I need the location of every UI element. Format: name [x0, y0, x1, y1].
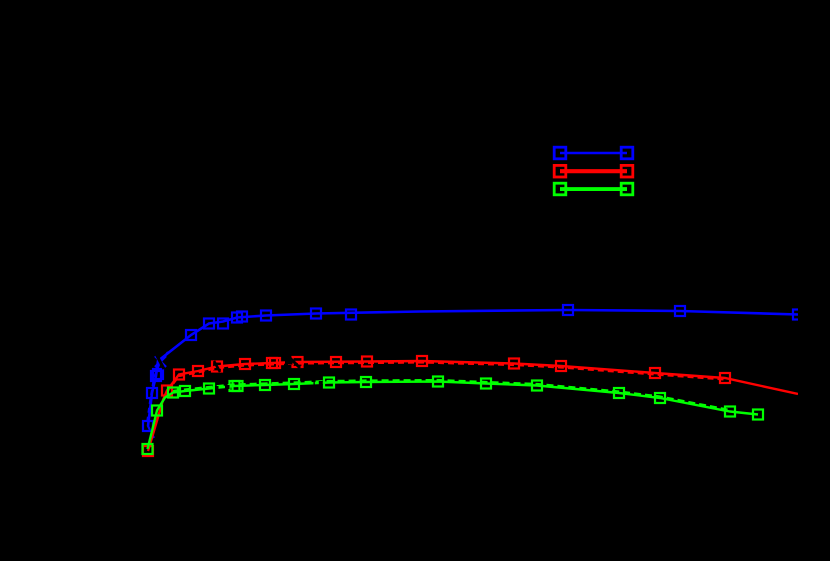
series blue curve line — [148, 310, 798, 426]
legend entry blue: line sample — [560, 152, 627, 154]
series green markers — [143, 377, 764, 455]
black overlay gap in red line before marker 297 — [285, 361, 293, 365]
legend entry blue: end markers — [554, 147, 633, 159]
series red dashed companion line — [167, 363, 725, 393]
black overlay cut on red marker at 217 — [214, 361, 220, 372]
legend entry red: end markers — [554, 165, 633, 177]
legend entry green: end markers — [554, 183, 633, 195]
legend entry green: line sample — [560, 188, 627, 190]
series red curve line — [148, 361, 798, 451]
black overlay gaps in green line (dashes) — [215, 383, 323, 388]
black dashed-overlay cut on blue left marker — [156, 354, 164, 369]
series blue X-shaped overlapped marker — [155, 356, 166, 367]
series blue markers — [143, 305, 803, 431]
series green dashed companion line — [173, 380, 730, 410]
black overlay slash on red marker 297 — [290, 358, 300, 368]
legend entry red: line sample — [560, 170, 627, 172]
series blue dashed companion line — [147, 352, 168, 438]
series red markers — [143, 356, 730, 456]
series green curve line — [148, 382, 759, 450]
